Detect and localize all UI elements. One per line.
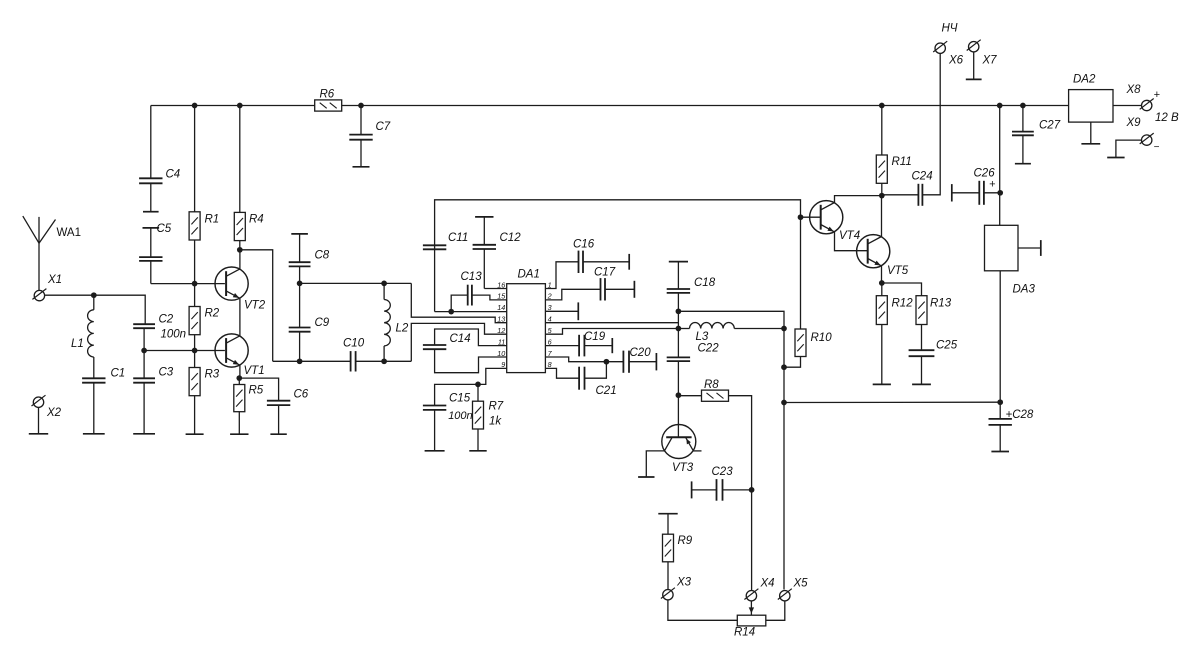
svg-text:R9: R9: [678, 535, 693, 547]
capacitor C1: [82, 377, 105, 379]
wire C16 right with end bar: [583, 261, 629, 263]
connector X9: [1142, 135, 1152, 145]
resistor R11: [881, 106, 883, 156]
resistor R2: [194, 284, 196, 307]
wire C8 node to L2 top: [300, 282, 412, 284]
svg-text:R14: R14: [734, 627, 755, 639]
capacitor C19: [578, 335, 580, 357]
wire pin5 jog to L3 node: [545, 329, 678, 335]
connector X4: [746, 591, 756, 601]
wire C5 to VT2 base node: [151, 283, 225, 285]
wire pin7 jog to C20: [545, 357, 623, 362]
svg-text:C23: C23: [712, 466, 734, 478]
svg-text:X9: X9: [1126, 117, 1142, 129]
capacitor C12: [475, 216, 493, 218]
svg-text:L1: L1: [71, 338, 84, 350]
wire X3 to R14 left: [668, 600, 737, 620]
node L2 top: [381, 281, 387, 287]
node rail-DA3: [997, 103, 1003, 109]
resistor R6: [315, 100, 342, 111]
wire pin16 to C12: [484, 288, 506, 290]
wire node to C15: [435, 384, 478, 405]
resistor R7: [477, 384, 479, 401]
capacitor C20: [622, 351, 624, 373]
wire C11 top to VT4 base (long top wire): [435, 200, 801, 250]
svg-text:C4: C4: [166, 169, 181, 181]
capacitor C14: [423, 344, 446, 346]
svg-text:R5: R5: [249, 385, 264, 397]
svg-text:R7: R7: [489, 401, 504, 413]
svg-text:VT3: VT3: [672, 462, 694, 474]
capacitor C8: [291, 233, 308, 235]
svg-text:C11: C11: [448, 232, 468, 244]
wire VT4 collector to R11 node: [835, 196, 882, 203]
connector X2: [33, 397, 43, 407]
wire C21 right up to pin7 wire: [585, 362, 607, 379]
ground R12: [873, 383, 891, 385]
wire X9 to end bar: [1116, 140, 1142, 157]
wire pin8 jog to C21: [545, 368, 579, 378]
wire C24 to X6: [922, 53, 940, 194]
svg-text:C7: C7: [376, 121, 391, 133]
wire VT1 emitter node to C6: [239, 378, 278, 401]
svg-text:C6: C6: [294, 389, 309, 401]
capacitor C5: [143, 227, 160, 229]
svg-text:C1: C1: [111, 368, 126, 380]
potentiometer R14: [737, 615, 766, 626]
svg-text:R13: R13: [930, 298, 952, 310]
capacitor C25: [909, 349, 935, 351]
svg-text:C10: C10: [343, 338, 365, 350]
node rail-R1: [192, 103, 198, 109]
wire DA3 right stub with bar: [1018, 247, 1041, 249]
node rail-C7: [358, 103, 364, 109]
svg-text:VT1: VT1: [244, 365, 265, 377]
terminal bar X7: [966, 78, 982, 80]
node C26-DA3 junction: [997, 190, 1003, 196]
resistor R5: [238, 378, 240, 384]
capacitor C15: [423, 405, 446, 407]
svg-text:C9: C9: [315, 317, 330, 329]
wire top rail right segment to X8: [1113, 105, 1142, 107]
wire pin3 stub with end bar: [545, 310, 578, 312]
connector X7: [969, 42, 979, 52]
svg-text:VT4: VT4: [839, 230, 860, 242]
svg-text:+C28: +C28: [1006, 409, 1034, 421]
ground C6: [270, 433, 286, 435]
svg-text:C25: C25: [936, 340, 958, 352]
ground R7: [469, 450, 486, 452]
ground R3: [186, 433, 204, 435]
node C22-R8 junction: [676, 392, 682, 398]
capacitor C28 electrolytic: [999, 402, 1001, 419]
transistor VT3: [662, 425, 696, 459]
svg-text:R6: R6: [320, 89, 335, 101]
capacitor C7: [360, 106, 362, 135]
svg-text:C20: C20: [630, 347, 652, 359]
wire C20 right with end bar: [629, 361, 656, 363]
wire X1 to C2: [45, 295, 145, 324]
node L2 bottom: [381, 358, 387, 364]
capacitor C2: [133, 323, 155, 325]
wire DA3 bottom to output node: [999, 271, 1001, 402]
svg-text:100n: 100n: [448, 410, 472, 422]
wire pin6 to C19: [545, 345, 579, 347]
svg-text:R10: R10: [811, 332, 833, 344]
ground X2: [29, 433, 48, 435]
wire C14 bottom to pin10: [435, 349, 507, 373]
resistor R13: [916, 296, 927, 325]
wire VT4 base node down to R10: [800, 217, 802, 329]
inductor L3: [678, 328, 689, 330]
node VT5 emitter junction: [879, 280, 885, 286]
wire C10 to L2 bottom: [356, 360, 412, 362]
svg-text:X7: X7: [982, 55, 998, 67]
node rail-C27: [1020, 103, 1026, 109]
svg-text:C8: C8: [315, 250, 330, 262]
wire VT4 emitter to VT5 base: [835, 232, 868, 251]
ground VT3: [638, 476, 654, 478]
wire C13 left to pin14 wire: [451, 295, 468, 312]
capacitor C18: [669, 261, 688, 263]
svg-text:C21: C21: [596, 385, 617, 397]
capacitor C26: [951, 184, 953, 201]
wire C19 right with end bar: [584, 345, 612, 347]
svg-text:R1: R1: [205, 214, 220, 226]
ground C28: [991, 451, 1009, 453]
wire rail to C4: [150, 106, 152, 179]
capacitor C3: [143, 351, 145, 379]
node C23 junction: [749, 487, 755, 493]
svg-text:C12: C12: [500, 232, 522, 244]
svg-text:X1: X1: [47, 274, 62, 286]
wire top rail middle segment: [342, 105, 1069, 107]
svg-text:12 В: 12 В: [1155, 112, 1179, 124]
svg-text:−: −: [1154, 142, 1160, 153]
svg-text:C2: C2: [159, 314, 174, 326]
transistor VT1: [215, 334, 248, 367]
wire R14 right to X5: [766, 601, 785, 620]
svg-text:C14: C14: [450, 333, 471, 345]
svg-text:НЧ: НЧ: [942, 23, 958, 35]
connector X8: [1142, 100, 1152, 110]
connector X3: [663, 590, 673, 600]
capacitor C23: [691, 481, 693, 498]
svg-text:VT5: VT5: [887, 265, 909, 277]
node C13/pin14 junction: [448, 309, 454, 315]
capacitor C6: [267, 400, 290, 402]
node R11 bottom junction: [879, 193, 885, 199]
node VT1 base junction: [192, 348, 198, 354]
svg-text:C27: C27: [1039, 120, 1061, 132]
capacitor C13: [467, 285, 469, 306]
wire pin1 jog to C16: [545, 262, 578, 289]
capacitor C9: [299, 283, 301, 327]
wire X2 to ground: [38, 408, 40, 434]
IC DA2 body: [1069, 90, 1113, 123]
svg-text:R4: R4: [249, 214, 264, 226]
wire +12V top rail left segment: [151, 105, 315, 107]
node C15-R7 junction: [475, 382, 481, 388]
wire pin4 to L3 node: [545, 322, 678, 324]
svg-text:X3: X3: [676, 577, 692, 589]
wire L3/R10 vertical bus: [783, 329, 785, 590]
node R10 bottom junction: [781, 364, 787, 370]
terminal bar above R9: [658, 513, 677, 515]
capacitor C10: [350, 351, 352, 371]
svg-text:R11: R11: [892, 156, 912, 168]
wire R11 node to C24: [882, 194, 919, 196]
svg-text:X8: X8: [1126, 84, 1142, 96]
svg-text:X5: X5: [793, 578, 809, 590]
ground C3: [133, 433, 155, 435]
transistor VT4: [810, 201, 843, 234]
svg-text:+: +: [1154, 89, 1161, 101]
resistor R8: [678, 395, 701, 397]
svg-text:C16: C16: [573, 239, 595, 251]
node C2-C3 junction: [141, 348, 147, 354]
wire VT5 collector up to R11 node: [881, 196, 883, 237]
wire VT2 emitter to VT1 collector: [239, 298, 241, 336]
ground C1: [83, 433, 105, 435]
resistor R4: [239, 106, 241, 213]
capacitor C16: [578, 251, 580, 273]
svg-text:DA3: DA3: [1013, 284, 1036, 296]
node rail-R11: [879, 103, 885, 109]
svg-text:X4: X4: [760, 578, 775, 590]
wire pin2 jog to C17: [545, 289, 600, 300]
svg-text:C17: C17: [594, 267, 616, 279]
node C8-L2 junction: [297, 281, 303, 287]
wire X4 wiper arrow to R14: [750, 601, 752, 615]
svg-text:R3: R3: [205, 369, 220, 381]
connector X1: [34, 290, 44, 300]
svg-text:R12: R12: [892, 298, 914, 310]
node VT2 collector junction: [237, 247, 243, 253]
capacitor C4: [139, 177, 162, 179]
ground R5: [230, 433, 248, 435]
wire VT2 collector node to C8/C9 branch: [240, 250, 273, 361]
wire VT5 node to R13: [882, 283, 922, 296]
IC DA3 body: [985, 225, 1019, 270]
node C21-pin7 junction: [604, 359, 610, 365]
node VT1 emitter junction: [236, 375, 242, 381]
svg-text:DA2: DA2: [1073, 74, 1096, 86]
wire C17 right with end bar: [605, 288, 634, 290]
wire C2/C3 node to VT1 base: [144, 350, 225, 352]
node C9-C10 junction: [297, 358, 303, 364]
wire L2 bottom to DA1 pin12: [411, 323, 506, 361]
svg-text:14: 14: [497, 303, 505, 312]
resistor R3: [194, 351, 196, 368]
svg-text:+: +: [989, 179, 996, 191]
svg-text:C19: C19: [584, 331, 606, 343]
node rail-R4: [237, 103, 243, 109]
transistor VT5: [857, 235, 890, 268]
wire R8 right down to C23 node: [729, 396, 752, 591]
svg-text:X2: X2: [46, 407, 62, 419]
node VT4 base junction: [798, 214, 804, 220]
inductor L1: [93, 295, 95, 310]
resistor R10: [795, 329, 806, 357]
node X1-L1: [91, 292, 97, 298]
svg-text:12: 12: [497, 326, 505, 335]
capacitor C22: [677, 311, 679, 357]
svg-text:C22: C22: [698, 343, 720, 355]
resistor R9: [667, 514, 669, 535]
wire DA2 bottom with bar: [1090, 122, 1092, 144]
svg-text:C15: C15: [449, 393, 471, 405]
wire C22 to VT3 collector: [677, 395, 679, 437]
svg-text:13: 13: [497, 315, 505, 324]
node output junction: [997, 399, 1003, 405]
resistor R12: [881, 283, 883, 296]
svg-text:C5: C5: [157, 223, 172, 235]
inductor L2: [383, 283, 385, 299]
svg-text:VT2: VT2: [244, 300, 266, 312]
wire pin9 to C15/R7 node: [478, 368, 507, 384]
svg-text:X6: X6: [948, 55, 964, 67]
ground C15: [425, 450, 445, 452]
connector X6: [935, 43, 945, 53]
IC DA1 body: [507, 284, 546, 373]
svg-text:C18: C18: [694, 277, 716, 289]
svg-text:R2: R2: [205, 308, 220, 320]
wire pin15 to C13: [472, 295, 507, 300]
resistor R1: [194, 106, 196, 212]
svg-text:DA1: DA1: [518, 269, 540, 281]
wire C18 node to R10 branch corner: [678, 311, 784, 328]
wire output bus: [784, 401, 1000, 403]
wire VT3 left lead to ground: [646, 451, 664, 477]
node L3 right junction: [781, 326, 787, 332]
wire VT3 right stub: [693, 450, 701, 452]
wire X7 to end bar: [973, 52, 975, 80]
node C18 bottom junction: [676, 308, 682, 314]
wire R10 bottom to bus: [784, 357, 801, 368]
node bus to output wire: [781, 400, 787, 406]
ground C25: [912, 383, 931, 385]
svg-text:100n: 100n: [161, 329, 187, 341]
wire VT5 emitter down to R12/R13 node: [881, 266, 883, 283]
wire pin11 to C14 top: [435, 329, 507, 346]
connector X5: [780, 591, 790, 601]
capacitor C21: [578, 367, 580, 390]
svg-text:R8: R8: [704, 379, 719, 391]
node L3 left junction: [676, 326, 682, 332]
wire rail to DA3: [999, 106, 1001, 226]
wire pin14 to C11: [435, 311, 507, 313]
wire VT1 emitter to R5 node: [239, 365, 241, 378]
wire bottom tank wire left: [273, 360, 351, 362]
svg-text:C13: C13: [461, 271, 483, 283]
capacitor C27: [1022, 106, 1024, 132]
antenna WA1: [38, 217, 40, 290]
capacitor C17: [600, 278, 602, 300]
svg-text:C3: C3: [159, 367, 174, 379]
svg-text:1k: 1k: [489, 416, 502, 428]
transistor VT2: [215, 267, 248, 300]
wire L2 top to DA1 pin13: [411, 283, 506, 322]
capacitor C11: [423, 244, 446, 246]
node VT2 base junction: [192, 281, 198, 287]
svg-text:C24: C24: [912, 171, 933, 183]
svg-text:L3: L3: [696, 331, 709, 343]
capacitor C24: [917, 184, 919, 206]
svg-text:L2: L2: [396, 323, 409, 335]
svg-text:WA1: WA1: [57, 227, 82, 239]
